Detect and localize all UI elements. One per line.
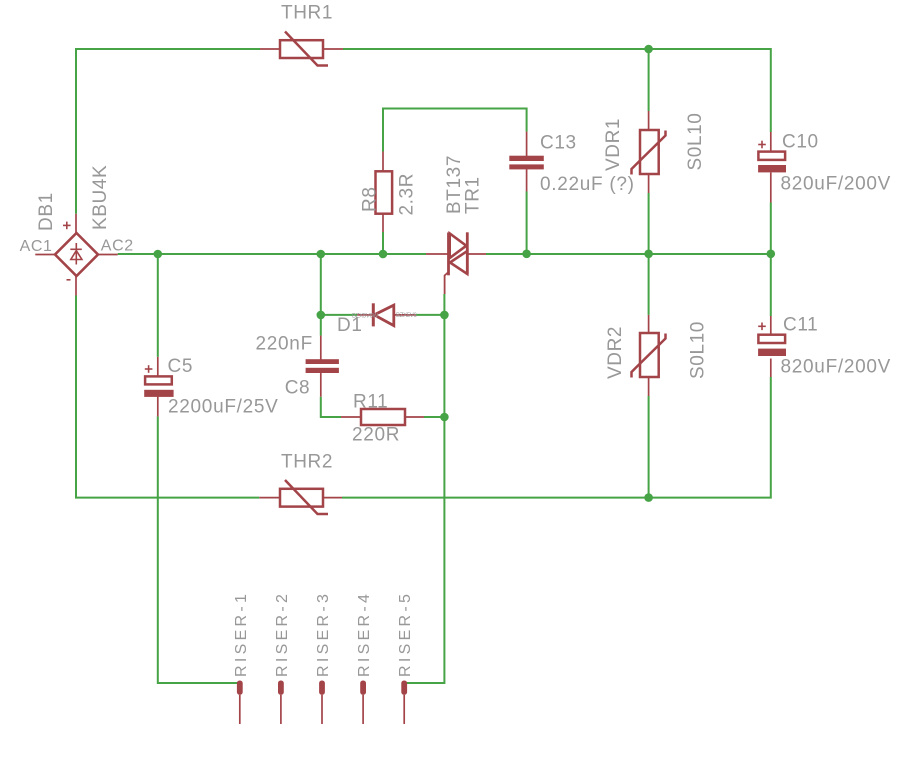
junction node mid bus / C13 bbox=[522, 250, 531, 259]
svg-text:D1: D1 bbox=[337, 315, 363, 336]
wire stub D1 right bbox=[394, 314, 416, 316]
svg-text:RISER-4: RISER-4 bbox=[356, 591, 373, 677]
wire stub THR2 left bbox=[259, 497, 280, 499]
diode D1 bbox=[373, 303, 394, 326]
svg-text:RISER-2: RISER-2 bbox=[274, 591, 291, 677]
wire VDR2 bottom to bottom bus bbox=[648, 396, 650, 498]
connector pin RISER-5 bbox=[401, 681, 407, 725]
wire riser-5 to vertical riser line bbox=[404, 294, 444, 683]
wire VDR2 top bbox=[648, 254, 650, 315]
wire stub C5 bottom bbox=[157, 397, 159, 417]
svg-text:S0L10: S0L10 bbox=[685, 113, 706, 171]
svg-text:AC1: AC1 bbox=[20, 238, 53, 255]
connector pin RISER-1 bbox=[237, 681, 243, 725]
svg-text:RISER-5: RISER-5 bbox=[397, 591, 414, 677]
wire stub C13 top bbox=[526, 132, 528, 156]
wire stub C8 top bbox=[320, 336, 322, 360]
wire C5 branch lower down to riser bus bbox=[158, 416, 240, 683]
wire mid bus right segment bbox=[486, 253, 771, 255]
wire stub R11 left bbox=[341, 416, 361, 418]
wire stub VDR2 bottom bbox=[648, 377, 650, 396]
wire stub TR1 right bbox=[467, 253, 486, 255]
wire D1 row right bbox=[416, 314, 444, 316]
svg-text:DB1: DB1 bbox=[36, 192, 57, 231]
capacitor C8 bbox=[306, 359, 339, 373]
wire stub D1 left bbox=[357, 314, 373, 316]
wire C8 D1 branch vertical top bbox=[320, 254, 322, 336]
wire stub C11 top bbox=[770, 316, 772, 335]
svg-text:C8: C8 bbox=[285, 378, 311, 399]
wire left vertical below DB1 to bottom bus bbox=[76, 296, 259, 498]
wire stub DB1 plus pin bbox=[75, 214, 77, 233]
wire C5 branch upper bbox=[157, 254, 159, 357]
wire stub C8 bottom bbox=[320, 373, 322, 397]
svg-text:VDR2: VDR2 bbox=[605, 326, 626, 379]
wire stub C10 top bbox=[770, 132, 772, 152]
wire stub VDR2 top bbox=[648, 315, 650, 333]
svg-text:THR2: THR2 bbox=[281, 452, 333, 473]
svg-text:VDR1: VDR1 bbox=[603, 118, 624, 171]
bridge rectifier DB1 bbox=[55, 233, 98, 276]
svg-text:KBU4K: KBU4K bbox=[90, 165, 111, 230]
junction node AC2/C5 bbox=[154, 250, 163, 259]
svg-text:220R: 220R bbox=[352, 425, 400, 446]
resistor R8 bbox=[376, 171, 393, 213]
connector pin RISER-2 bbox=[278, 681, 284, 725]
capacitor C11 polarized bbox=[758, 335, 786, 356]
junction node mid bus / VDR bbox=[644, 250, 653, 259]
svg-text:BZX5V6: BZX5V6 bbox=[396, 313, 418, 319]
capacitor C10 polarized bbox=[758, 152, 786, 173]
junction node top bus / VDR1 bbox=[644, 45, 653, 54]
svg-text:2.3R: 2.3R bbox=[397, 173, 418, 216]
wire bottom bus right of THR2 bbox=[342, 377, 771, 498]
svg-text:RISER-1: RISER-1 bbox=[233, 591, 250, 677]
wire VDR1 branch top bbox=[648, 49, 650, 111]
wire stub VDR1 top bbox=[648, 111, 650, 130]
svg-text:820uF/200V: 820uF/200V bbox=[781, 174, 892, 195]
wire stub DB1 minus pin bbox=[75, 277, 77, 296]
wire stub VDR1 bottom bbox=[648, 174, 650, 193]
wire stub C10 bottom bbox=[770, 173, 772, 203]
wire stub C13 bottom bbox=[526, 169, 528, 191]
wire top bus right of THR1 bbox=[343, 49, 771, 132]
label C11 plus bbox=[758, 323, 766, 331]
wire stub DB1 AC1 pin bbox=[35, 254, 55, 256]
label C10 plus bbox=[758, 141, 766, 149]
wire R11 right to vertical bbox=[424, 416, 444, 418]
wire C8 below to R11 row bbox=[321, 397, 341, 417]
wire C13 bottom to mid bus bbox=[526, 192, 528, 254]
junction node bottom bus / VDR2 bbox=[644, 493, 653, 502]
svg-text:R11: R11 bbox=[353, 392, 388, 413]
svg-text:2200uF/25V: 2200uF/25V bbox=[168, 397, 279, 418]
triac TR1 bbox=[449, 232, 468, 275]
connector pin RISER-4 bbox=[360, 681, 366, 725]
wire top bus left of THR1 bbox=[76, 49, 260, 214]
svg-text:RISER-3: RISER-3 bbox=[315, 591, 332, 677]
wire stub R8 bottom bbox=[382, 214, 384, 232]
capacitor C13 bbox=[509, 156, 544, 170]
wire stub C5 top bbox=[157, 357, 159, 377]
resistor R11 bbox=[361, 409, 405, 425]
label DB1 plus bbox=[63, 222, 71, 230]
capacitor C5 polarized bbox=[144, 376, 173, 397]
label DB1 minus bbox=[67, 279, 71, 281]
svg-text:C5: C5 bbox=[168, 356, 194, 377]
junction node mid bus / C8 branch bbox=[317, 250, 326, 259]
wire stub TR1 gate bbox=[445, 272, 449, 294]
junction node mid bus / R8 bbox=[379, 250, 388, 259]
svg-text:0.22uF (?): 0.22uF (?) bbox=[540, 174, 635, 195]
wire stub DB1 AC2 pin bbox=[98, 254, 118, 256]
wire stub C11 bottom bbox=[770, 359, 772, 378]
svg-text:AC2: AC2 bbox=[101, 237, 134, 254]
wire stub TR1 left bbox=[426, 253, 449, 255]
svg-text:C11: C11 bbox=[783, 315, 818, 336]
svg-text:220nF: 220nF bbox=[256, 333, 313, 354]
svg-text:THR1: THR1 bbox=[281, 3, 333, 24]
varistor VDR1 bbox=[632, 130, 666, 175]
wire stub R8 top bbox=[382, 152, 384, 172]
varistor VDR2 bbox=[632, 333, 666, 378]
wire R8 branch below bbox=[382, 232, 384, 254]
wire R8 top link to C13 bbox=[383, 109, 527, 152]
junction node mid bus / right vertical bbox=[767, 250, 776, 259]
label C5 plus bbox=[145, 365, 153, 373]
wire mid bus left segment bbox=[118, 253, 426, 255]
wire stub THR1 right bbox=[323, 48, 343, 50]
thermistor THR1 bbox=[280, 32, 328, 66]
junction node D1 left bbox=[317, 311, 326, 320]
svg-text:R8: R8 bbox=[360, 187, 381, 213]
thermistor THR2 bbox=[280, 480, 328, 514]
wire VDR1 bottom to mid bus bbox=[648, 193, 650, 254]
connector pin RISER-3 bbox=[319, 681, 325, 725]
svg-text:C13: C13 bbox=[540, 133, 577, 154]
wire right vertical between C10 and C11 bbox=[770, 203, 772, 317]
svg-text:C10: C10 bbox=[782, 132, 819, 153]
junction node R11 right bbox=[440, 413, 449, 422]
svg-text:820uF/200V: 820uF/200V bbox=[781, 357, 892, 378]
svg-text:TR1: TR1 bbox=[463, 176, 484, 214]
svg-text:S0L10: S0L10 bbox=[688, 321, 709, 379]
wire stub R11 right bbox=[405, 416, 424, 418]
wire stub THR1 left bbox=[260, 48, 280, 50]
wire D1 row left bbox=[321, 314, 357, 316]
junction node D1 right / gate bbox=[440, 311, 449, 320]
wire stub THR2 right bbox=[323, 497, 342, 499]
